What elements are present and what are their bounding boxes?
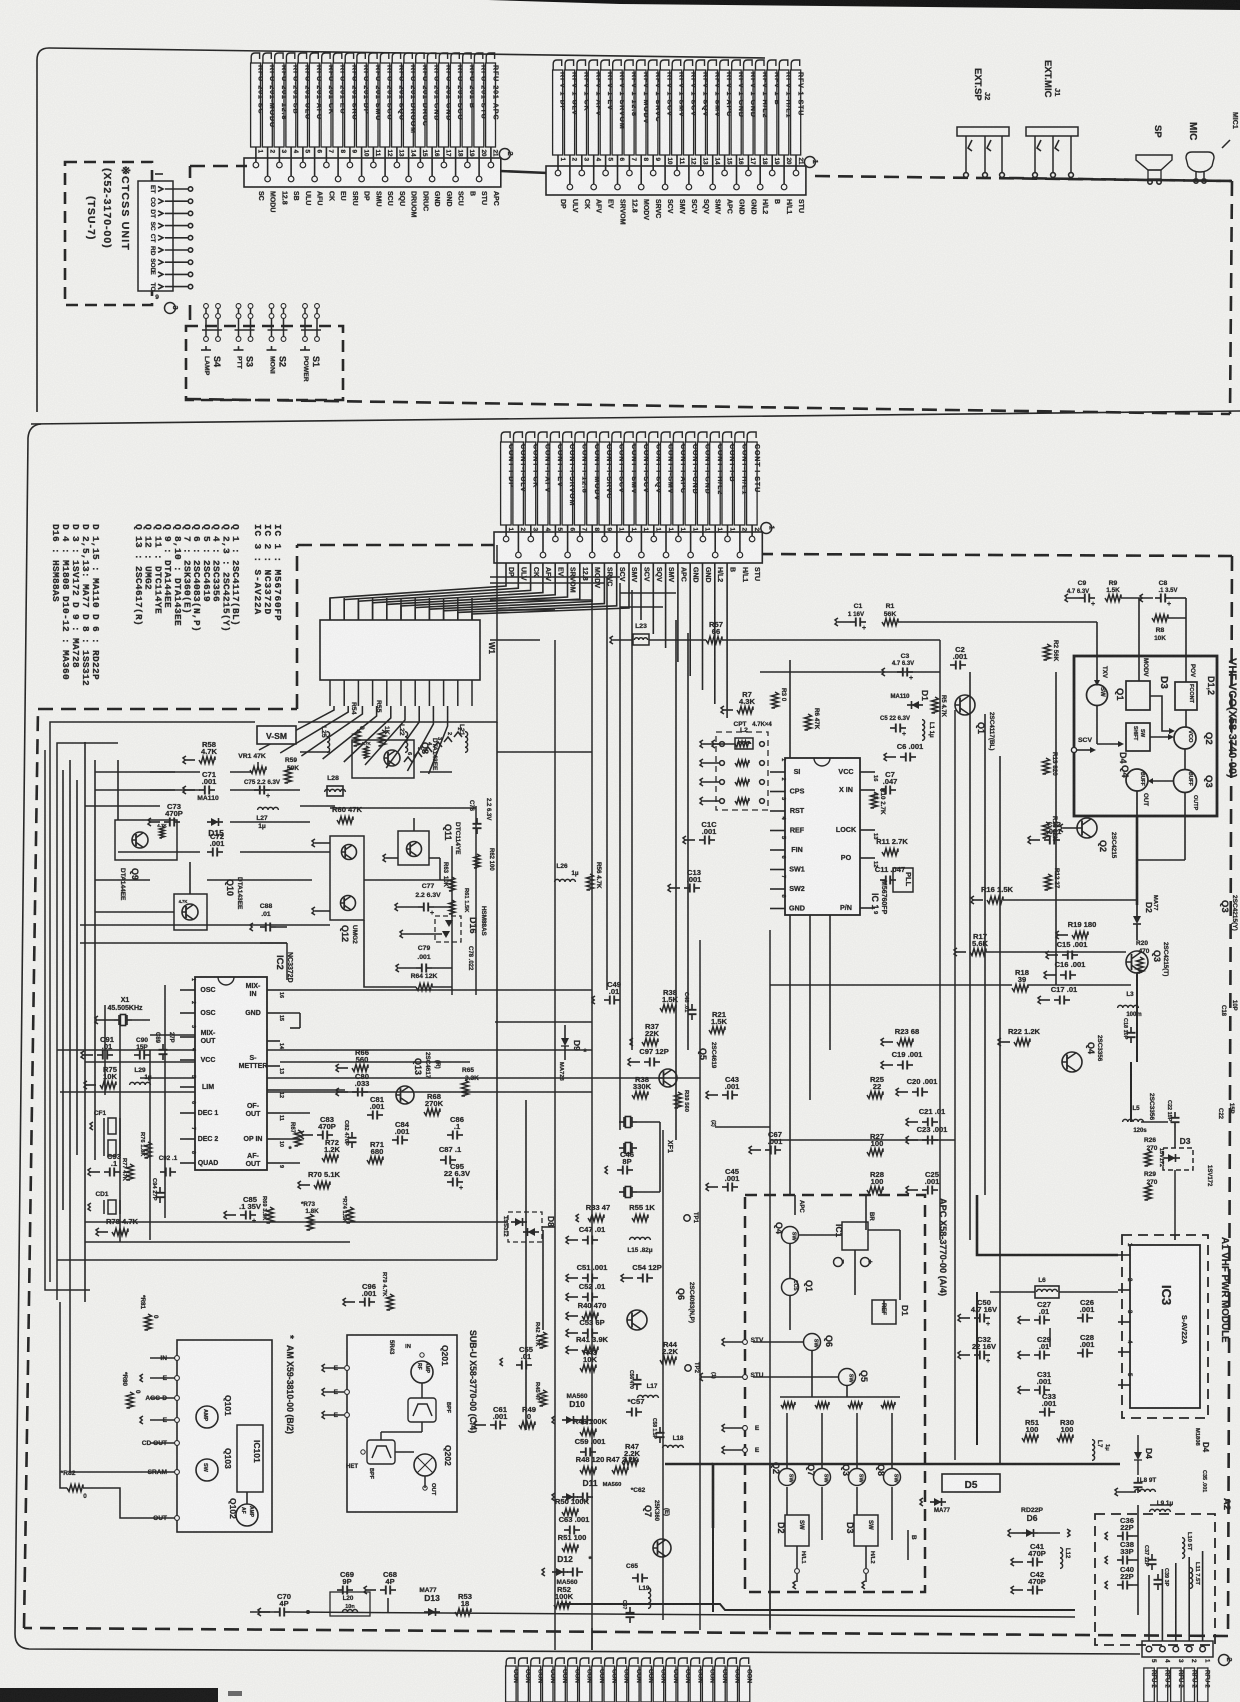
cable strip RFU-201-DP <box>357 53 365 65</box>
bank id 2 <box>499 149 510 160</box>
wires APC <box>789 1243 791 1279</box>
wire <box>165 237 189 239</box>
pin 17 <box>702 532 704 539</box>
cable strip RFU-201-APC <box>486 53 494 65</box>
switch Q3b <box>849 1469 866 1486</box>
pin 6 <box>567 532 569 555</box>
vertical from CONT <box>675 620 677 1140</box>
wire <box>747 155 749 166</box>
switch Q1 ccs <box>782 1279 799 1296</box>
cable strip RFU-201-SCU <box>451 53 459 65</box>
cable strip RFV-1-SMV <box>672 60 681 72</box>
resistor R1 <box>882 619 898 626</box>
wire <box>525 1100 527 1430</box>
pin 11 <box>628 532 630 539</box>
pin 1 mark <box>155 173 163 175</box>
AM unit box <box>177 1340 272 1532</box>
pin 17 <box>747 166 749 173</box>
wire <box>302 147 304 158</box>
wire <box>736 155 738 166</box>
wire <box>891 1413 893 1468</box>
transistor Q10 <box>174 894 207 930</box>
cable strip RFV-1-SMV <box>708 60 717 72</box>
wire <box>1136 973 1138 1062</box>
wire <box>786 1413 788 1468</box>
IC1 apc <box>842 1222 868 1250</box>
cable strip CONT-I-SCV <box>637 432 646 444</box>
wire <box>702 563 704 690</box>
transistor Q1 VCO <box>955 695 975 715</box>
pin 7 <box>579 532 581 539</box>
wire <box>605 155 607 166</box>
inductor L18 <box>663 1445 684 1448</box>
wire <box>444 563 605 620</box>
pin 4 <box>290 158 292 179</box>
wire <box>689 563 691 676</box>
resistor R54 <box>354 730 361 746</box>
cable strip RFV-1-SRVOM <box>613 60 622 72</box>
wire <box>652 155 654 166</box>
cable strip RFU-2 <box>1157 1668 1168 1702</box>
cable strip CONT-I <box>728 1658 737 1668</box>
resistor R76 <box>145 1142 152 1158</box>
IC3 pins <box>1118 1254 1130 1256</box>
inductor L25 <box>327 732 330 753</box>
scan edge bar top right <box>488 0 1240 10</box>
cable strip RFU-201-STU <box>474 53 482 65</box>
pin 21 <box>795 166 797 173</box>
cable strip RFV-1-ULV <box>565 60 574 72</box>
wire <box>640 525 642 532</box>
wire <box>770 1139 955 1141</box>
wire <box>856 1413 858 1468</box>
cable strip CONT-I <box>654 1658 663 1668</box>
pin 2 <box>569 166 571 187</box>
AF amplifier Q102 <box>236 1504 258 1526</box>
cable strip CONT-I <box>678 1658 687 1668</box>
transistor Q11 <box>398 831 429 865</box>
transistor Q5 <box>659 1069 677 1087</box>
wire <box>714 563 716 704</box>
bank id 1 <box>761 523 772 534</box>
vertical bus <box>451 846 453 995</box>
pin 12 <box>640 532 642 555</box>
cable strip CONT-I-ULV <box>514 432 523 444</box>
diode D9 <box>561 1038 569 1046</box>
wire <box>373 563 543 620</box>
wire <box>677 525 679 532</box>
long horizontal wires mid <box>57 1049 592 1051</box>
cable strip CONT-I-STU <box>747 432 756 444</box>
resistor <box>720 799 725 804</box>
resistor <box>815 1402 829 1408</box>
pin 6 <box>314 158 316 179</box>
block SHIFT SW <box>1126 723 1150 751</box>
wires pwr <box>990 1291 1035 1293</box>
verticals below PLL <box>789 915 791 1195</box>
resistor R79 <box>387 1294 394 1310</box>
wire <box>428 598 430 620</box>
cable strip RFU-201-DRUOM <box>404 53 412 65</box>
resistor R26 <box>1145 1150 1152 1166</box>
pin 16 <box>431 158 433 179</box>
mid horizontal wires <box>150 1034 195 1036</box>
pin 18 <box>714 532 716 555</box>
wire <box>676 155 678 166</box>
pin 5 <box>554 532 556 539</box>
resistor R45 <box>540 1390 547 1406</box>
IC2 box <box>195 977 267 1170</box>
cable strip RFV-1-SRVC <box>648 60 657 72</box>
cable strip RFU-201-GND <box>427 53 435 65</box>
wire <box>337 147 339 158</box>
bandpass filter BPF2 <box>367 1440 395 1464</box>
pin 3 <box>530 532 532 539</box>
cable strip RFU-2 <box>1144 1668 1155 1702</box>
cable strip RFV-1-H/L1 <box>779 60 788 72</box>
wire <box>458 563 617 620</box>
switch block D2 <box>785 1515 809 1546</box>
wire <box>770 984 1012 986</box>
resistor R10 <box>871 792 878 808</box>
inductor L15 <box>630 1237 651 1240</box>
capacitor C5 <box>890 727 896 729</box>
pin 14 <box>712 166 714 187</box>
switch block D3b <box>854 1515 878 1546</box>
long horizontal wire <box>85 805 160 807</box>
transistor Q7 fet <box>653 1539 671 1557</box>
IC101 <box>237 1425 263 1492</box>
mixer Q202 <box>414 1454 436 1476</box>
pin 8 <box>591 532 593 555</box>
cable strip CONT-I-EV <box>550 432 559 444</box>
VHF VCO module box <box>1074 656 1217 816</box>
resistor R67 <box>295 1130 302 1146</box>
pin 20 <box>478 158 480 179</box>
resistor R2 <box>1044 644 1051 660</box>
resistor R74 <box>347 1207 354 1223</box>
cable strip CONT-I-APC <box>673 432 682 444</box>
A2 dashed box <box>1095 1514 1215 1645</box>
transistor Q9 <box>115 820 177 860</box>
pin 14 <box>408 158 410 179</box>
right vertical buses <box>969 672 971 1240</box>
wire <box>267 147 269 158</box>
wire <box>554 525 556 532</box>
diode D2 <box>1133 916 1141 924</box>
wire <box>677 563 679 662</box>
cable strip RFV-1-SCV <box>660 60 669 72</box>
capacitor C35 <box>1137 1477 1139 1483</box>
inductor L17 <box>638 1395 659 1398</box>
resistor R80 <box>127 1392 134 1408</box>
cable strip RFU-2 <box>1171 1668 1182 1702</box>
pin 5 <box>1146 1646 1152 1652</box>
cable strip RFV-1-SQV <box>696 60 705 72</box>
wire <box>714 525 716 532</box>
wire <box>542 525 544 532</box>
wire <box>591 525 593 532</box>
pin 13 <box>700 166 702 173</box>
diode D13 <box>424 1611 440 1613</box>
resistor R61 <box>449 900 455 914</box>
capacitor C89 <box>162 1044 164 1050</box>
wire <box>616 525 618 532</box>
wire <box>542 1230 544 1330</box>
wire <box>664 155 666 166</box>
wire <box>278 147 280 158</box>
pin 2 <box>1186 1646 1192 1652</box>
wire <box>165 273 189 275</box>
wire <box>280 706 348 753</box>
wire <box>361 147 363 158</box>
wire <box>1175 1563 1177 1641</box>
wire <box>954 710 956 1460</box>
pin 16 <box>736 166 738 187</box>
pin 19 <box>466 158 468 165</box>
resistor network CPF <box>716 732 768 810</box>
switch S3 <box>238 303 240 341</box>
wire <box>455 147 457 158</box>
wire <box>117 760 119 820</box>
wire <box>715 1126 770 1128</box>
wire <box>591 1628 593 1650</box>
wire <box>554 640 556 1650</box>
inductor L1 <box>922 720 925 741</box>
pin 15 <box>419 158 421 165</box>
cable strip RFV-1-EV <box>601 60 610 72</box>
wire <box>165 261 189 263</box>
cable strip CONT-I <box>703 1658 712 1668</box>
wire <box>323 706 377 759</box>
wire <box>80 942 287 944</box>
wire <box>712 155 714 166</box>
cable strip CONT-I-12.8 <box>575 432 584 444</box>
pin 1 <box>1200 1646 1206 1652</box>
transistor Q3 driver <box>1126 951 1148 973</box>
wire <box>415 563 580 620</box>
transistor Q12 pair <box>330 836 364 920</box>
inductor L23 <box>633 634 649 645</box>
wire <box>85 1241 350 1243</box>
pin 11 <box>372 158 374 165</box>
V-SM label box <box>257 726 296 744</box>
wire <box>414 598 416 620</box>
cable strip CONT-I <box>605 1658 614 1668</box>
resistor R77 <box>127 1164 134 1180</box>
pin 15 <box>724 166 726 173</box>
switch Q6b <box>804 1334 821 1351</box>
wire <box>365 706 405 765</box>
diode D16 <box>435 916 461 942</box>
pin 13 <box>653 532 655 539</box>
wire <box>259 706 334 750</box>
pin 7 <box>628 166 630 173</box>
wire <box>407 706 433 771</box>
wire <box>771 155 773 166</box>
V-SM area outline wire <box>50 722 255 1282</box>
cable strip RFU-201-EU <box>333 53 341 65</box>
cable strip RFU-201-SC <box>251 53 259 65</box>
wire <box>665 563 667 648</box>
wire <box>628 155 630 166</box>
switch S2 <box>271 303 273 341</box>
pin 5 <box>605 166 607 173</box>
cable strip RFV-1-DP <box>553 60 562 72</box>
cable strip CONT-I-B <box>723 432 732 444</box>
cable strip RFV-1-APC <box>720 60 729 72</box>
capacitor C1 <box>850 621 856 623</box>
resistor R56 <box>587 874 594 890</box>
wire <box>726 563 728 718</box>
inductor L20 <box>330 1592 370 1616</box>
capacitor C64 <box>629 1607 631 1613</box>
wire <box>165 249 189 251</box>
cable strip CONT-I <box>715 1658 724 1668</box>
wire <box>688 155 690 166</box>
switch Q4b <box>782 1227 799 1244</box>
wire bus <box>649 639 706 641</box>
wire <box>769 1464 771 1628</box>
wire <box>443 598 445 620</box>
RF amplifier Q201 <box>411 1361 433 1383</box>
wire <box>640 155 642 166</box>
cable strip CONT-I-SMV <box>624 432 633 444</box>
wire <box>165 286 189 288</box>
potentiometer VR1 <box>250 767 266 774</box>
pin 7 <box>325 158 327 165</box>
inductor L26 <box>555 879 576 882</box>
transistor Q13 <box>396 1086 414 1104</box>
wire <box>591 600 593 1650</box>
wire <box>384 147 386 158</box>
wire <box>662 1130 664 1620</box>
resistor R6 <box>805 714 812 730</box>
wire <box>457 598 459 620</box>
resistor <box>720 780 725 785</box>
switch Q8b <box>884 1469 901 1486</box>
cable strip RFU-201-SRU <box>345 53 353 65</box>
cable strip RFU-201-B <box>463 53 471 65</box>
wire to D8 <box>85 1221 508 1223</box>
wire <box>431 147 433 158</box>
wire <box>344 706 391 762</box>
pin 8 <box>640 166 642 187</box>
resistor R13 <box>1043 758 1050 774</box>
cable strip RFV-1-GND <box>732 60 741 72</box>
pin 10 <box>664 166 666 187</box>
wire <box>727 525 729 532</box>
pin 17 <box>443 158 445 165</box>
cable strip CONT-I <box>506 1658 515 1668</box>
wire <box>408 147 410 158</box>
wire <box>70 1240 150 1472</box>
wire <box>80 924 330 926</box>
PLL label box <box>893 868 913 892</box>
transistor Q8 <box>352 740 414 778</box>
wire <box>604 525 606 532</box>
capacitor C90 <box>134 1054 140 1056</box>
wires SUB-U <box>421 1383 423 1398</box>
switch Q5b <box>839 1369 856 1386</box>
pin 5 <box>302 158 304 165</box>
wire <box>1161 1569 1163 1641</box>
cable strip RFV-1-CK <box>577 60 586 72</box>
cable strip RFV-1-MODV <box>637 60 646 72</box>
cable strip CONT-I-H/L1 <box>735 432 744 444</box>
resistor R69 <box>267 1207 274 1223</box>
noise overlay <box>0 0 1 1</box>
wire <box>795 155 797 166</box>
wire heavy to IC3 <box>977 1195 1118 1255</box>
resistor R3 <box>772 692 779 708</box>
resistor R9 <box>1105 595 1121 602</box>
capacitor C92 <box>160 1171 166 1173</box>
resistor R39 <box>675 1092 682 1108</box>
pin 19 <box>727 532 729 539</box>
unit id 3 <box>165 303 176 314</box>
wire <box>396 147 398 158</box>
wire <box>419 147 421 158</box>
wire <box>466 147 468 158</box>
wire <box>60 1302 67 1488</box>
wire <box>724 155 726 166</box>
resistor R81 <box>145 1314 152 1330</box>
long wire <box>57 743 118 1300</box>
top unit dashed border right <box>815 176 1232 181</box>
wire <box>372 147 374 158</box>
resistor R12 <box>1045 874 1052 890</box>
wire <box>496 880 498 1200</box>
dashed link to connector <box>190 165 247 168</box>
cable strip CONT-I <box>555 1658 564 1668</box>
wire <box>505 525 507 532</box>
switch block dashed box <box>186 326 343 400</box>
wire <box>699 940 701 1630</box>
pin 3 <box>581 166 583 173</box>
resistor R15 <box>1043 822 1050 838</box>
wire <box>821 1413 823 1468</box>
transistor Q4 <box>1062 1052 1082 1072</box>
wire <box>290 147 292 158</box>
pin 20 <box>783 166 785 187</box>
polarity marks <box>834 1258 843 1267</box>
main unit solid border <box>31 411 1240 424</box>
wire <box>939 640 941 1240</box>
wire <box>567 525 569 532</box>
wire VCO out down <box>1136 816 1139 905</box>
wire <box>751 525 753 532</box>
cable strip RFU-201-DRUC <box>416 53 424 65</box>
connector box CONT-I <box>494 532 762 563</box>
cable strip CONT-I-DP <box>501 432 510 444</box>
capacitor C82 <box>351 1132 353 1138</box>
bottom-right connector RFU-2 <box>1142 1641 1213 1657</box>
wire <box>783 155 785 166</box>
cable strip CONT-I <box>629 1658 638 1668</box>
wire <box>1188 1557 1190 1641</box>
inductor L5 <box>1123 1119 1144 1122</box>
buffer Q3 <box>1174 770 1197 793</box>
cable strip RFV-1-B <box>767 60 776 72</box>
pin 4 <box>1160 1646 1166 1652</box>
pin 1 <box>255 158 257 165</box>
cable strip CONT-I-SRVC <box>600 432 609 444</box>
resistor R42 <box>540 1332 547 1348</box>
capacitor C8 <box>1155 597 1161 599</box>
inductor L6 <box>1037 1289 1058 1292</box>
pin 18 <box>455 158 457 179</box>
